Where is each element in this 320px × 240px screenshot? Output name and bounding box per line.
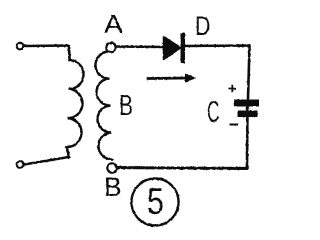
wire capacitor to bottom xyxy=(246,106,249,168)
bottom wire to node B xyxy=(117,168,247,169)
inductor primary winding xyxy=(67,60,84,147)
svg-text:B: B xyxy=(104,172,122,202)
node B xyxy=(107,163,116,172)
capacitor C plus sign xyxy=(229,85,237,93)
svg-text:D: D xyxy=(195,12,210,42)
figure number circle 5 xyxy=(132,179,179,226)
wire node A to diode xyxy=(116,45,164,48)
terminal top-left xyxy=(17,43,24,50)
inductor secondary winding xyxy=(95,52,112,160)
current arrow xyxy=(148,77,188,80)
node A xyxy=(106,43,115,52)
terminal bottom-left xyxy=(17,161,24,168)
wire top-left to primary xyxy=(24,46,70,61)
svg-text:C: C xyxy=(207,95,220,130)
diode D xyxy=(164,37,182,60)
wire primary to terminal bottom-left xyxy=(24,147,69,165)
capacitor bottom plate xyxy=(238,111,258,118)
svg-text:B: B xyxy=(119,90,133,122)
capacitor minus sign xyxy=(230,124,239,126)
svg-text:5: 5 xyxy=(147,181,164,223)
svg-text:A: A xyxy=(104,10,123,38)
wire diode to right corner xyxy=(185,46,250,100)
capacitor top plate xyxy=(234,100,259,107)
